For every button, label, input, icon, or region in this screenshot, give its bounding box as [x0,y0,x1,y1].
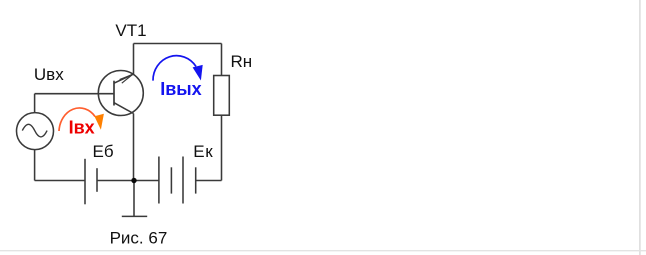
resistor Rн body [214,76,230,116]
current arrow Iвх arrowhead [94,114,104,130]
svg-text:Uвх: Uвх [34,65,64,84]
current arrow Iвх arc (orange) [59,108,95,131]
current arrow Iвых arrowhead [193,65,203,81]
battery Ек plate 1 (long) [158,157,160,204]
battery Еб long plate [84,159,86,205]
wire: AC source bottom lead [34,150,36,181]
svg-text:Iвх: Iвх [69,117,95,137]
transistor VT1 base bar [113,81,115,106]
page edge right border [639,0,640,255]
transistor VT1 emitter arrowhead [120,74,133,83]
transistor VT1 upper lead (emitter diagonal) [114,74,134,83]
AC source G1 circle [17,113,54,150]
ground bar [122,215,147,217]
wire: node down to ground [133,181,135,217]
current arrow Iвых arc (blue) [153,56,196,81]
wire: AC source top lead [34,94,36,113]
wire: top collector to Rн [134,43,222,45]
battery Ек plate 2 (short) [170,167,172,193]
transistor VT1 lower lead (collector diagonal) [114,103,134,114]
wire: collector lead up [133,44,135,75]
wire: Rн top lead [221,44,223,76]
wire: node to battery Ек [134,180,159,182]
battery Еб short plate [96,168,98,192]
wire: battery Еб to node [97,180,134,182]
node junction dot [131,178,136,183]
AC source sine wave [22,124,47,137]
svg-text:Ек: Ек [193,142,213,161]
wire: AC source to battery Еб [35,180,85,182]
svg-text:Еб: Еб [93,142,114,161]
wire: Rн bottom lead down [221,115,223,180]
wire: input to base [35,93,114,95]
battery Ек plate 4 (short) [195,167,197,193]
page edge bottom border [0,250,646,251]
svg-text:VT1: VT1 [115,21,146,40]
svg-text:Iвых: Iвых [160,79,201,99]
transistor VT1 circle [98,71,143,116]
battery Ек plate 3 (long) [182,157,184,204]
svg-text:Rн: Rн [231,52,253,71]
wire: bottom right to battery Ек [196,180,222,182]
wire: emitter lead down to node [133,114,135,181]
svg-text:Рис. 67: Рис. 67 [110,229,168,248]
